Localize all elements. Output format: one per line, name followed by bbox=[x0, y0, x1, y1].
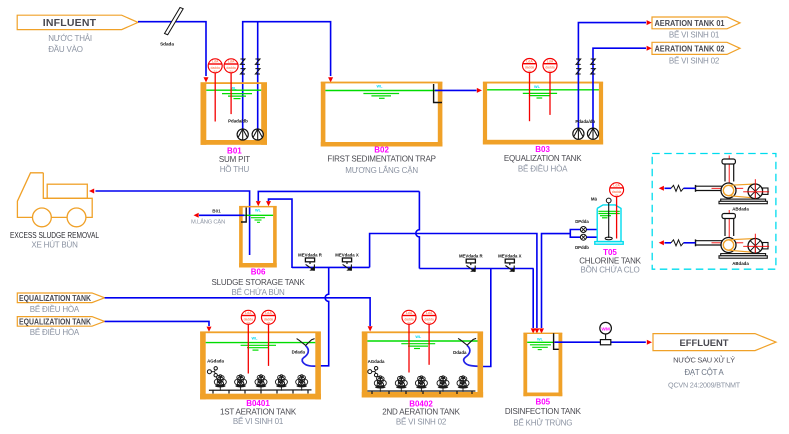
DO meter 1 B04-02 bbox=[408, 324, 410, 373]
svg-text:INFLUENT: INFLUENT bbox=[43, 17, 97, 29]
water level B02 bbox=[325, 90, 437, 92]
flex unions on B03 risers bbox=[576, 59, 581, 74]
svg-text:BỂ VI SINH 02: BỂ VI SINH 02 bbox=[669, 57, 720, 66]
tank B03 walls bbox=[483, 82, 603, 145]
truck excess sludge removal bbox=[17, 173, 92, 218]
water level B06 bbox=[243, 214, 273, 216]
weir B05 bbox=[554, 333, 559, 349]
diffuser grid B04-01 bbox=[209, 390, 312, 394]
flow meter WM bbox=[605, 334, 607, 340]
svg-text:CHLORINE TANK: CHLORINE TANK bbox=[579, 257, 641, 266]
svg-text:EFFLUENT: EFFLUENT bbox=[680, 337, 729, 348]
wire equalization2 to B04-01 bbox=[105, 321, 209, 326]
weir B06 bbox=[241, 208, 246, 223]
blower AB a flex discharge bbox=[665, 187, 672, 189]
wire sludge return valve group2 into B06 bbox=[258, 191, 419, 201]
banner AERATION TANK 01 bbox=[652, 17, 740, 40]
wire B03 pump2 to aeration tank 02 bbox=[593, 48, 646, 128]
svg-text:HỒ THU: HỒ THU bbox=[220, 164, 250, 174]
svg-text:EQUALIZATION TANK: EQUALIZATION TANK bbox=[19, 293, 91, 303]
svg-text:MEVdada R: MEVdada R bbox=[459, 254, 484, 259]
svg-text:B02: B02 bbox=[374, 146, 389, 155]
svg-text:AGdada: AGdada bbox=[207, 358, 224, 363]
svg-text:M.LẮNG CẶN: M.LẮNG CẶN bbox=[191, 218, 225, 226]
wire B04-01 decanter riser with jump bbox=[320, 267, 329, 365]
tank B04-02 walls bbox=[362, 331, 483, 397]
banner EQUALIZATION TANK 2 bbox=[17, 316, 104, 336]
svg-text:WL: WL bbox=[534, 85, 541, 89]
level switch LS2 B03 bbox=[549, 72, 551, 115]
svg-text:DPddb: DPddb bbox=[575, 245, 589, 250]
svg-text:AGdada: AGdada bbox=[368, 359, 385, 364]
label NUOC THAI DAU VAO bbox=[48, 34, 92, 54]
water level B05 bbox=[527, 341, 553, 343]
svg-text:Ddada: Ddada bbox=[292, 350, 306, 355]
svg-text:BỂ VI SINH 01: BỂ VI SINH 01 bbox=[669, 31, 720, 40]
wire equalization1 to B04-02 bbox=[105, 298, 371, 326]
svg-text:BỂ ĐIỀU HÒA: BỂ ĐIỀU HÒA bbox=[30, 327, 80, 337]
tank B01 walls bbox=[201, 82, 268, 145]
svg-text:B03: B03 bbox=[535, 145, 550, 154]
svg-text:BỂ VI SINH 02: BỂ VI SINH 02 bbox=[396, 417, 447, 426]
DO meter 1 B04-01 bbox=[247, 324, 249, 374]
tank B02 walls bbox=[321, 82, 443, 147]
valve MEV R group2 bbox=[466, 259, 475, 272]
tank T05 chlorine bbox=[595, 205, 623, 244]
chlorine liquid bbox=[598, 211, 619, 218]
arrow into B02 bbox=[328, 77, 333, 82]
wire chlorine dosing to B05 bbox=[542, 234, 571, 328]
blower AB b bbox=[696, 210, 770, 266]
arrow into B01 bbox=[204, 77, 209, 82]
diffuser bushes B04-01 bbox=[214, 375, 226, 391]
svg-text:ĐẦU VÀO: ĐẦU VÀO bbox=[48, 44, 83, 54]
level switch T05 bbox=[616, 197, 618, 239]
svg-text:AERATION TANK 01: AERATION TANK 01 bbox=[655, 18, 725, 28]
wire group2 to B05 bbox=[532, 269, 534, 329]
blower AB b flex discharge bbox=[665, 242, 672, 244]
water level B04-02 bbox=[367, 340, 477, 342]
tank B06 walls bbox=[239, 206, 277, 268]
svg-text:EQUALIZATION TANK: EQUALIZATION TANK bbox=[19, 316, 91, 326]
dosing pump DP b bbox=[580, 234, 586, 240]
svg-text:ABdada: ABdada bbox=[732, 206, 749, 211]
wire sludge return valve group1 into B06 bbox=[269, 199, 293, 268]
svg-text:NƯỚC THẢI: NƯỚC THẢI bbox=[48, 34, 92, 43]
DO meter 2 B04-01 bbox=[268, 324, 270, 366]
level switch LS1 B01 bbox=[214, 73, 216, 122]
svg-text:ĐẠT CỘT A: ĐẠT CỘT A bbox=[684, 368, 724, 377]
banner AERATION TANK 02 bbox=[652, 42, 740, 65]
svg-text:NƯỚC SAU XỬ LÝ: NƯỚC SAU XỬ LÝ bbox=[673, 356, 735, 365]
level switch LS1 B03 bbox=[529, 72, 531, 121]
wire influent to B01 bbox=[138, 22, 206, 76]
truck wheels bbox=[33, 208, 52, 227]
banner INFLUENT bbox=[17, 15, 138, 29]
svg-text:WL: WL bbox=[537, 338, 544, 342]
arrows into aeration banners bbox=[647, 20, 652, 25]
svg-text:EXCESS SLUDGE REMOVAL: EXCESS SLUDGE REMOVAL bbox=[10, 230, 99, 240]
weir B02 bbox=[434, 84, 442, 103]
svg-text:B05: B05 bbox=[535, 398, 550, 407]
svg-text:BỂ KHỬ TRÙNG: BỂ KHỬ TRÙNG bbox=[513, 418, 572, 427]
svg-text:B06: B06 bbox=[251, 268, 266, 277]
svg-text:AERATION TANK 02: AERATION TANK 02 bbox=[655, 43, 725, 53]
valve MEV X group2 bbox=[505, 259, 514, 272]
blower skid dashed box bbox=[652, 154, 776, 270]
svg-text:MEVdada R: MEVdada R bbox=[298, 253, 323, 258]
blower AB a bbox=[696, 156, 770, 212]
svg-text:DISINFECTION TANK: DISINFECTION TANK bbox=[505, 407, 582, 416]
arrow into B03 bbox=[477, 88, 482, 93]
valve MEV R group1 bbox=[305, 258, 314, 271]
svg-text:DPdda: DPdda bbox=[575, 219, 589, 224]
wire group1 decant to B05 bbox=[370, 234, 537, 329]
svg-text:BỂ VI SINH 01: BỂ VI SINH 01 bbox=[233, 417, 284, 426]
svg-text:MEVdada X: MEVdada X bbox=[498, 254, 522, 259]
water level B04-01 bbox=[206, 342, 316, 344]
svg-text:WM: WM bbox=[601, 326, 610, 332]
svg-text:Pdada/db: Pdada/db bbox=[575, 119, 595, 124]
wire B06 overflow to B01 bbox=[199, 214, 245, 216]
valve MEV X group1 bbox=[342, 258, 351, 271]
water level B03 bbox=[487, 89, 599, 91]
svg-text:BỂ CHỨA BÙN: BỂ CHỨA BÙN bbox=[232, 288, 286, 297]
wire B03 pump1 to aeration tank 01 bbox=[578, 23, 646, 128]
svg-text:WL: WL bbox=[255, 209, 262, 213]
dosing pump DP a bbox=[580, 227, 586, 233]
wire B01 pumps header to B02 bbox=[243, 22, 331, 129]
valve group 1 line bbox=[292, 266, 370, 268]
water level B01 bbox=[206, 89, 261, 91]
decanter D B04-01 bbox=[297, 339, 315, 346]
svg-text:WL: WL bbox=[252, 337, 259, 341]
diffuser bushes B04-02 bbox=[374, 376, 386, 392]
svg-text:BỒN CHỨA CLO: BỒN CHỨA CLO bbox=[580, 265, 639, 275]
svg-text:XE HÚT BÙN: XE HÚT BÙN bbox=[31, 241, 78, 250]
svg-text:MƯƠNG LẮNG CẶN: MƯƠNG LẮNG CẶN bbox=[345, 166, 418, 175]
svg-text:FIRST SEDIMENTATION TRAP: FIRST SEDIMENTATION TRAP bbox=[327, 155, 435, 164]
svg-text:1ST AERATION TANK: 1ST AERATION TANK bbox=[220, 407, 297, 416]
svg-text:WL: WL bbox=[415, 335, 422, 339]
wire group2 feed with jump over decant line bbox=[416, 191, 420, 268]
svg-text:MEVdada X: MEVdada X bbox=[335, 253, 359, 258]
diffuser grid B04-02 bbox=[367, 391, 475, 394]
svg-text:SUM PIT: SUM PIT bbox=[219, 155, 250, 164]
svg-text:Sdada: Sdada bbox=[160, 42, 174, 47]
svg-text:Pdada/db: Pdada/db bbox=[228, 119, 248, 124]
hose decanter B04-01 bbox=[302, 346, 320, 367]
svg-text:B01: B01 bbox=[212, 209, 221, 214]
tank B05 walls bbox=[523, 333, 562, 397]
banner EQUALIZATION TANK 1 bbox=[17, 293, 104, 314]
svg-text:Mả: Mả bbox=[591, 196, 598, 201]
wire B01 pump2 riser bbox=[257, 22, 259, 129]
tank B04-01 walls bbox=[200, 331, 321, 399]
flex unions on B01 risers bbox=[240, 59, 245, 74]
svg-text:Ddada: Ddada bbox=[453, 350, 467, 355]
wire truck suction from B06 bbox=[96, 191, 250, 255]
decanter D B04-02 bbox=[458, 338, 476, 345]
hose decanter B04-02 bbox=[464, 345, 482, 366]
level switch LS2 B01 bbox=[230, 73, 232, 114]
banner EFFLUENT bbox=[653, 334, 776, 351]
svg-text:BỂ ĐIỀU HÒA: BỂ ĐIỀU HÒA bbox=[518, 164, 568, 174]
svg-text:2ND AERATION TANK: 2ND AERATION TANK bbox=[382, 408, 460, 417]
wire B04-02 decanter riser bbox=[481, 269, 491, 367]
wire dosing pump branches bbox=[570, 230, 597, 238]
arrow into truck bbox=[89, 189, 94, 194]
svg-text:EQUALIZATION TANK: EQUALIZATION TANK bbox=[504, 154, 582, 163]
wire B05 to effluent bbox=[555, 341, 646, 343]
wire B02 to B03 bbox=[435, 89, 477, 91]
bar screen SC bbox=[160, 8, 183, 47]
svg-text:SLUDGE STORAGE TANK: SLUDGE STORAGE TANK bbox=[212, 278, 306, 287]
svg-text:WL: WL bbox=[377, 85, 384, 89]
valve group 2 line bbox=[419, 268, 533, 270]
DO meter 2 B04-02 bbox=[428, 324, 430, 365]
svg-text:QCVN 24:2009/BTNMT: QCVN 24:2009/BTNMT bbox=[668, 381, 741, 390]
svg-text:BỂ ĐIỀU HÒA: BỂ ĐIỀU HÒA bbox=[30, 304, 80, 314]
